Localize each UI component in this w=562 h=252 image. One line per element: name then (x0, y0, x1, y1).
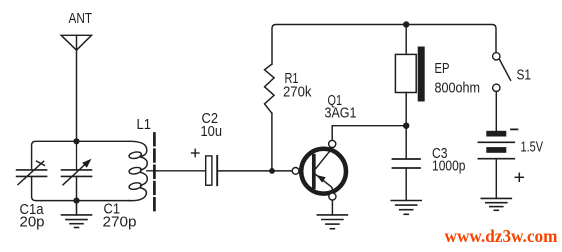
node tank top junction (73, 138, 79, 144)
svg-text:S1: S1 (517, 68, 532, 84)
wire Q1 collector up and right (332, 126, 406, 141)
capacitor C1 (variable) (62, 141, 92, 200)
svg-text:3AG1: 3AG1 (325, 106, 357, 122)
node tank bottom junction (73, 198, 79, 204)
wire EP top (405, 25, 407, 55)
svg-text:800ohm: 800ohm (435, 81, 481, 97)
node top rail junction (403, 21, 409, 27)
wire base node to Q1 base (272, 170, 292, 172)
core (dashed line) (153, 134, 156, 211)
wire coil tap to C2 (147, 170, 206, 172)
wire R1 to base node (271, 113, 273, 171)
transistor Q1 (292, 140, 346, 200)
svg-text:L1: L1 (137, 117, 152, 133)
svg-text:270p: 270p (103, 215, 137, 231)
antenna symbol (61, 35, 91, 50)
svg-text:www.dz3w.com: www.dz3w.com (445, 226, 558, 246)
svg-text:1.5V: 1.5V (521, 140, 544, 156)
switch S1 (493, 53, 511, 92)
wire C2 to base node (218, 170, 272, 172)
resistor R1 (265, 64, 275, 113)
node base junction (269, 168, 275, 174)
wire C3 to ground (405, 168, 407, 201)
polarity + for C2 (192, 149, 199, 156)
svg-text:20p: 20p (20, 215, 45, 231)
svg-text:10u: 10u (201, 124, 223, 140)
wire tank bottom (32, 177, 129, 201)
node collector junction (403, 123, 409, 129)
wire S1 to battery (495, 92, 497, 131)
ground (emitter) (317, 215, 347, 229)
wire EP bottom (405, 93, 407, 126)
wire top rail (272, 25, 496, 65)
svg-text:270k: 270k (283, 85, 312, 101)
earphone EP (395, 47, 424, 102)
ground (C3) (391, 201, 421, 215)
capacitor C2 (206, 156, 218, 185)
inductor L1 (129, 141, 148, 200)
battery B1 (478, 131, 514, 159)
svg-text:ANT: ANT (69, 11, 93, 27)
capacitor C3 (393, 159, 421, 168)
svg-text:1000p: 1000p (432, 159, 466, 175)
wire antenna lead-in (76, 35, 78, 141)
wire Q1 emitter to ground (331, 200, 333, 215)
ground (tank) (62, 201, 92, 228)
wire battery to ground (495, 159, 497, 199)
wire tank top (32, 141, 130, 168)
ground (battery) (481, 198, 511, 210)
svg-text:EP: EP (435, 61, 450, 77)
polarity + for battery (515, 173, 523, 181)
wire to C3 (405, 126, 407, 158)
polarity - for battery (511, 128, 517, 130)
capacitor C1a (trimmer) (17, 161, 47, 184)
